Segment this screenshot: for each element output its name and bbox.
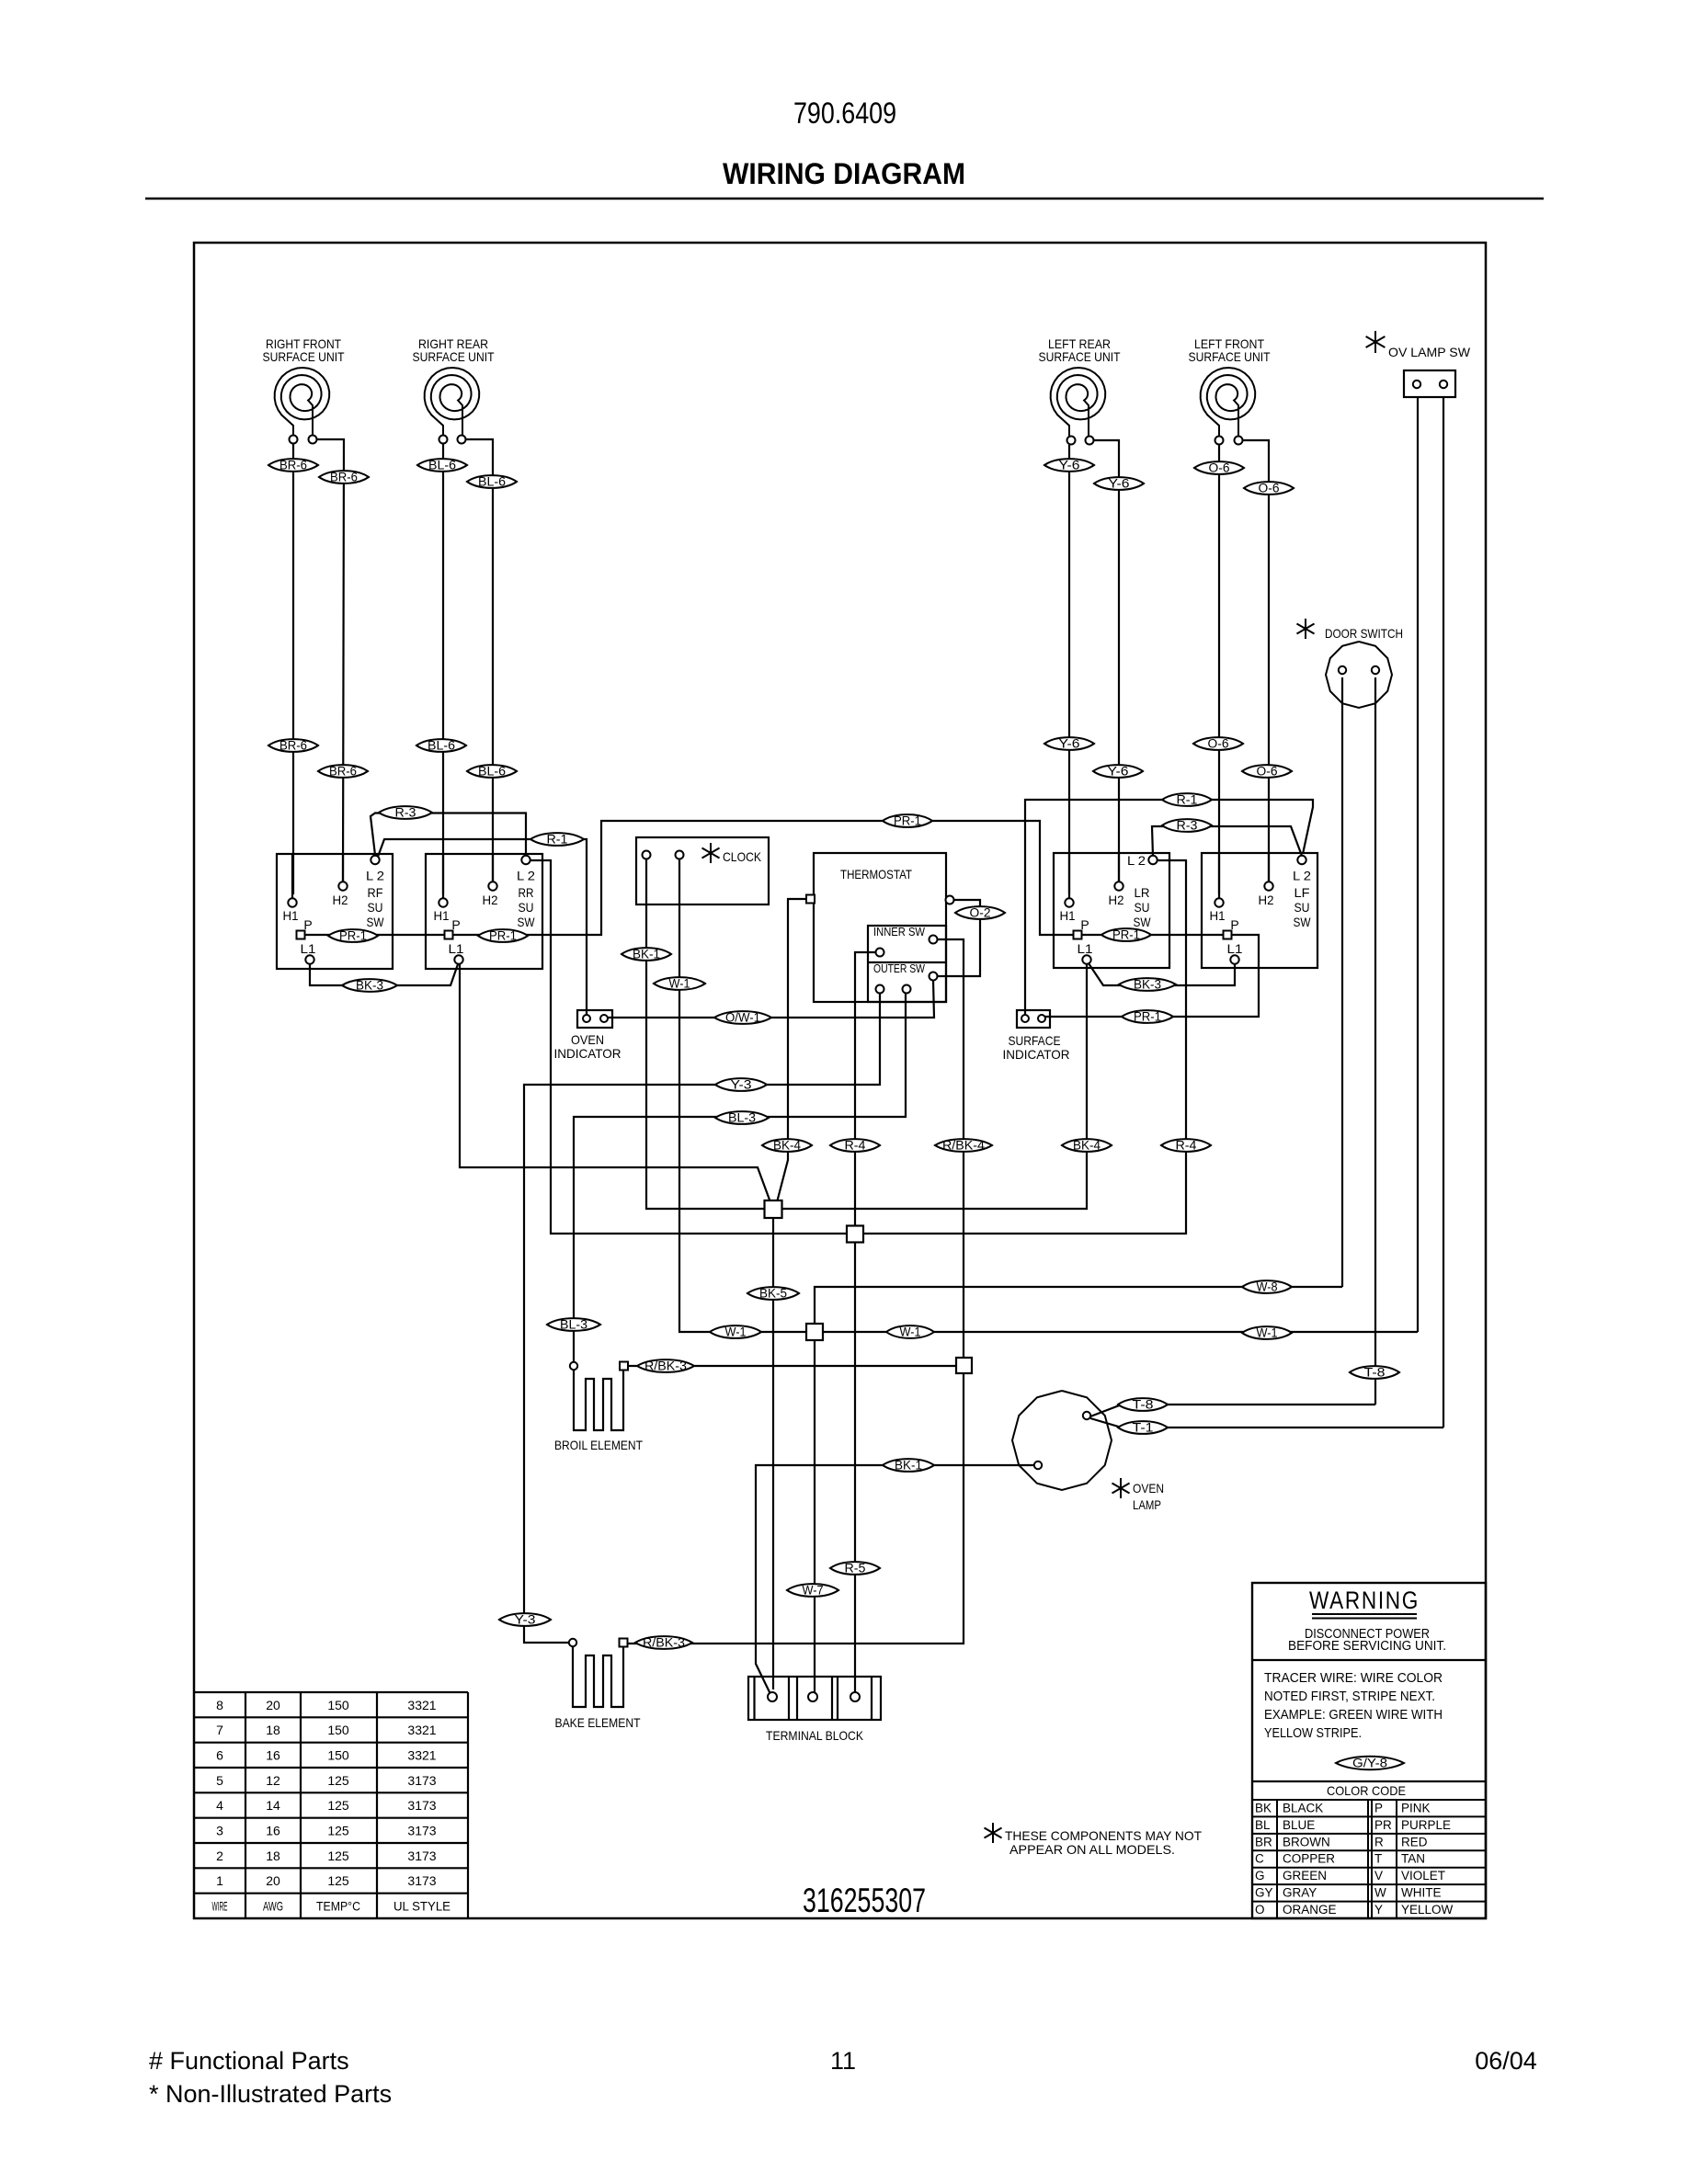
svg-text:125: 125 [327, 1873, 349, 1888]
wire label BK-3 [342, 979, 397, 992]
svg-text:WHITE: WHITE [1401, 1886, 1442, 1900]
svg-text:O/W-1: O/W-1 [725, 1011, 760, 1025]
svg-text:P: P [1080, 917, 1089, 932]
junction node R/BK [956, 1358, 972, 1373]
wire label R/BK-4 [935, 1139, 992, 1152]
CLOCK asterisk [710, 843, 712, 863]
svg-text:O-6: O-6 [1208, 737, 1229, 751]
wire label O-6 [1244, 482, 1294, 495]
svg-text:BR: BR [1255, 1835, 1272, 1848]
wire outer SW right to oven indicator (O/W-1) [608, 980, 934, 1018]
wire clock left to junction (BK-1) [646, 859, 764, 1209]
BAKE ELEMENT pins [569, 1639, 576, 1646]
svg-text:L 2: L 2 [517, 869, 535, 883]
OV LAMP SW asterisk [1374, 331, 1376, 353]
svg-text:SURFACE UNIT: SURFACE UNIT [1039, 349, 1121, 364]
svg-text:RED: RED [1401, 1835, 1428, 1848]
LR unit pins [1067, 437, 1076, 445]
svg-text:Y-6: Y-6 [1059, 737, 1080, 751]
svg-text:H1: H1 [1210, 908, 1226, 923]
wire OV LAMP SW right pin to T-1 [1443, 397, 1444, 1428]
svg-text:EXAMPLE: GREEN WIRE WITH: EXAMPLE: GREEN WIRE WITH [1264, 1708, 1443, 1723]
svg-text:W-7: W-7 [803, 1584, 824, 1598]
wire inner SW right to bake element (R/BK-4) [628, 939, 964, 1644]
wire label Y-6 [1093, 765, 1143, 778]
svg-text:PINK: PINK [1401, 1801, 1431, 1814]
wire label PR-1 [1101, 928, 1151, 941]
OVEN LAMP pins [1083, 1412, 1090, 1419]
svg-text:1: 1 [216, 1873, 223, 1888]
wire label Y-6 [1044, 737, 1094, 750]
wire RR H2 lead [466, 439, 493, 882]
wire R net (RR L2 / LR L2 / inner sw / terminal 3) [530, 860, 1186, 1234]
wire label BK-4 [762, 1139, 812, 1152]
LR switch pin H1 [1065, 898, 1073, 906]
svg-text:WIRING DIAGRAM: WIRING DIAGRAM [723, 157, 965, 190]
svg-text:2: 2 [216, 1848, 223, 1863]
svg-text:C: C [1255, 1852, 1264, 1866]
wire label R-3 [379, 806, 432, 819]
wire label W-8 [1242, 1280, 1292, 1293]
wire label W-1 [1242, 1326, 1292, 1339]
TERMINAL BLOCK body [748, 1677, 881, 1720]
svg-text:T-8: T-8 [1133, 1398, 1154, 1412]
svg-text:* Non-Illustrated Parts: * Non-Illustrated Parts [149, 2080, 392, 2108]
svg-text:O: O [1255, 1903, 1265, 1917]
svg-text:TERMINAL BLOCK: TERMINAL BLOCK [766, 1728, 864, 1743]
svg-text:20: 20 [266, 1698, 280, 1712]
wire label R-1 [1162, 793, 1212, 806]
wire LF H1 lead [1218, 445, 1220, 894]
svg-text:GRAY: GRAY [1283, 1886, 1317, 1900]
wire BK-3 (LR L1 to LF L1) [1089, 963, 1235, 985]
wire label BL-6 [417, 459, 467, 472]
svg-text:SW: SW [518, 915, 536, 929]
svg-text:R-1: R-1 [1177, 793, 1198, 807]
wire label BR-6 [268, 739, 318, 752]
wire label BR-6 [319, 471, 369, 483]
svg-text:316255307: 316255307 [803, 1882, 926, 1919]
LF switch pin L2 [1297, 856, 1306, 864]
wire label R/BK-3 [635, 1636, 692, 1649]
wire label O/W-1 [714, 1011, 771, 1024]
wire label BK-3 [1119, 978, 1176, 991]
wire label G/Y-8 [1336, 1757, 1404, 1770]
COLOR CODE divider [1252, 1780, 1486, 1782]
svg-text:R/BK-4: R/BK-4 [942, 1139, 986, 1153]
svg-text:H1: H1 [1060, 908, 1076, 923]
WARNING divider [1252, 1659, 1486, 1661]
RR switch pin L2 [521, 856, 530, 864]
wire PR-1 LF P to surface indicator [1045, 935, 1259, 1017]
svg-text:06/04: 06/04 [1475, 2047, 1537, 2075]
LR switch wire H1 stub [1068, 853, 1070, 898]
svg-text:UL STYLE: UL STYLE [393, 1899, 451, 1914]
svg-text:5: 5 [216, 1773, 223, 1788]
svg-text:R/BK-3: R/BK-3 [644, 1359, 687, 1373]
svg-text:BL-6: BL-6 [478, 475, 506, 489]
RF switch pin L1 [305, 955, 314, 963]
wire label BR-6 [318, 765, 368, 778]
svg-text:INNER SW: INNER SW [873, 925, 926, 938]
svg-text:8: 8 [216, 1698, 223, 1712]
wire label PR-1 [328, 929, 378, 942]
wire label BK-5 [747, 1287, 799, 1300]
wire label R-1 [530, 833, 584, 846]
svg-text:R-4: R-4 [1176, 1139, 1198, 1153]
svg-text:SW: SW [1294, 915, 1312, 929]
svg-text:COLOR CODE: COLOR CODE [1327, 1783, 1406, 1798]
wire BK-3 (RF L1 to RR L1) [310, 964, 458, 985]
svg-text:GREEN: GREEN [1283, 1869, 1327, 1883]
svg-text:150: 150 [327, 1723, 349, 1737]
svg-text:18: 18 [266, 1723, 280, 1737]
surface unit switch box RF SU SW [277, 854, 393, 969]
svg-text:SU: SU [519, 900, 534, 915]
wire W-1 (clock to OV lamp SW) [679, 859, 1418, 1332]
svg-text:NOTED FIRST, STRIPE NEXT.: NOTED FIRST, STRIPE NEXT. [1264, 1689, 1435, 1704]
surface unit coil RIGHT REAR [425, 368, 480, 439]
svg-text:WIRE: WIRE [212, 1899, 228, 1914]
svg-text:BL-3: BL-3 [728, 1111, 756, 1125]
RF switch wire H2 stub [342, 854, 344, 882]
wire RF H2 lead [316, 439, 344, 882]
wire label BL-6 [416, 739, 466, 752]
svg-text:Y-6: Y-6 [1059, 459, 1080, 472]
LF switch wire H1 stub [1218, 853, 1220, 898]
THERMOSTAT box [814, 853, 946, 1002]
OVEN LAMP body [1012, 1391, 1112, 1490]
wire R-3 (RF L2 to RR L2) [371, 813, 526, 857]
svg-text:150: 150 [327, 1748, 349, 1763]
wire label W-1 [886, 1325, 934, 1338]
svg-text:L1: L1 [1227, 941, 1243, 956]
svg-text:BK-4: BK-4 [773, 1139, 801, 1153]
svg-text:R-4: R-4 [845, 1139, 867, 1153]
LF switch pin H2 [1264, 882, 1272, 890]
RR switch pin P [445, 931, 453, 939]
THERMOSTAT left pin [806, 895, 815, 904]
wire label R/BK-3 [637, 1359, 694, 1372]
INNER SW right pin [930, 936, 938, 944]
svg-text:SURFACE UNIT: SURFACE UNIT [263, 349, 345, 364]
RR switch wire H1 stub [442, 854, 444, 898]
svg-text:14: 14 [266, 1798, 280, 1813]
RF switch pin P [297, 931, 305, 939]
surface unit coil RIGHT FRONT [275, 368, 330, 439]
svg-text:H1: H1 [283, 908, 299, 923]
svg-text:PR-1: PR-1 [1112, 928, 1140, 942]
INNER/OUTER SW sub-box [868, 926, 946, 1002]
BROIL ELEMENT coil [574, 1371, 623, 1430]
wire label T-8 [1350, 1366, 1399, 1379]
svg-text:R-3: R-3 [1177, 819, 1198, 833]
wire label W-7 [787, 1584, 838, 1597]
svg-text:H2: H2 [1259, 893, 1274, 907]
svg-text:H2: H2 [483, 893, 498, 907]
svg-text:RR: RR [519, 885, 534, 900]
svg-text:BR-6: BR-6 [279, 459, 307, 472]
svg-text:BK-1: BK-1 [895, 1459, 922, 1473]
junction node R [847, 1226, 863, 1243]
OVEN INDICATOR box [577, 1010, 612, 1028]
svg-text:BK-1: BK-1 [633, 948, 660, 961]
svg-text:AWG: AWG [263, 1899, 283, 1914]
svg-text:PR-1: PR-1 [1134, 1010, 1161, 1024]
svg-text:APPEAR ON ALL MODELS.: APPEAR ON ALL MODELS. [1009, 1842, 1175, 1857]
svg-text:BL-6: BL-6 [428, 459, 456, 472]
LR switch pin L1 [1082, 955, 1090, 963]
svg-text:12: 12 [266, 1773, 280, 1788]
svg-text:TAN: TAN [1401, 1852, 1425, 1866]
TERMINAL BLOCK pins [768, 1692, 777, 1701]
svg-text:V: V [1374, 1869, 1383, 1883]
svg-text:3173: 3173 [407, 1773, 436, 1788]
wire junction to terminal 1 (BK-5) [772, 1218, 774, 1689]
svg-text:L1: L1 [1078, 941, 1093, 956]
svg-text:3173: 3173 [407, 1798, 436, 1813]
svg-text:3321: 3321 [407, 1723, 436, 1737]
CLOCK box [636, 837, 769, 904]
svg-text:SW: SW [367, 915, 385, 929]
svg-text:3321: 3321 [407, 1698, 436, 1712]
svg-text:H2: H2 [333, 893, 348, 907]
svg-text:L1: L1 [301, 941, 316, 956]
svg-text:BK-3: BK-3 [356, 979, 383, 993]
svg-text:BLUE: BLUE [1283, 1818, 1315, 1832]
wire label W-1 [654, 977, 705, 990]
svg-text:THERMOSTAT: THERMOSTAT [840, 867, 912, 882]
COLOR CODE header rule [1252, 1799, 1486, 1801]
svg-text:SURFACE UNIT: SURFACE UNIT [1189, 349, 1271, 364]
svg-text:BK-4: BK-4 [1073, 1139, 1101, 1153]
wire label Y-6 [1094, 477, 1144, 490]
svg-text:BL: BL [1255, 1818, 1271, 1832]
svg-text:125: 125 [327, 1773, 349, 1788]
RF switch pin H2 [338, 882, 347, 890]
svg-text:P: P [451, 917, 460, 932]
surface unit switch box LF SU SW [1202, 853, 1317, 968]
LR switch pin L2 [1148, 856, 1157, 864]
LF switch pin H1 [1215, 898, 1223, 906]
WARNING box [1252, 1583, 1486, 1918]
OV LAMP SW pins [1413, 381, 1420, 388]
svg-text:BEFORE SERVICING UNIT.: BEFORE SERVICING UNIT. [1288, 1639, 1446, 1654]
svg-text:W-1: W-1 [725, 1325, 747, 1339]
svg-text:W-1: W-1 [900, 1325, 921, 1339]
LR switch pin H2 [1114, 882, 1123, 890]
note asterisk [992, 1823, 994, 1843]
wire LR H2 lead [1093, 440, 1119, 882]
wire label W-1 [710, 1325, 761, 1338]
surface unit switch box RR SU SW [426, 854, 542, 969]
wire R-3 (LF L2 to LR L2) [1152, 826, 1302, 857]
wire W-7 (junction to terminal 2) [814, 1340, 815, 1692]
svg-text:3173: 3173 [407, 1873, 436, 1888]
wire label BL-6 [467, 475, 517, 488]
DOOR SWITCH asterisk [1305, 619, 1306, 639]
wire label BR-6 [268, 459, 318, 472]
svg-text:3: 3 [216, 1824, 223, 1838]
svg-text:BLACK: BLACK [1283, 1801, 1323, 1814]
svg-text:OUTER SW: OUTER SW [873, 961, 926, 975]
svg-text:3321: 3321 [407, 1748, 436, 1763]
svg-text:R: R [1374, 1835, 1384, 1848]
svg-text:PURPLE: PURPLE [1401, 1818, 1451, 1832]
svg-text:4: 4 [216, 1798, 223, 1813]
svg-text:T: T [1374, 1852, 1382, 1866]
svg-text:125: 125 [327, 1824, 349, 1838]
CLOCK pins [643, 851, 651, 859]
svg-text:TRACER WIRE: WIRE COLOR: TRACER WIRE: WIRE COLOR [1264, 1671, 1443, 1686]
svg-text:W-8: W-8 [1257, 1280, 1278, 1294]
wire label BK-1 [883, 1459, 934, 1472]
wire RF H1 lead [292, 444, 294, 894]
svg-text:R-1: R-1 [547, 833, 568, 847]
svg-text:LF: LF [1295, 885, 1310, 900]
svg-text:INDICATOR: INDICATOR [1003, 1047, 1070, 1062]
wire thermostat left to junction (BK-4) [777, 899, 806, 1202]
wire PR-1 net [304, 821, 1224, 935]
wire junction to LR L1 (BK-4) [782, 964, 1087, 1209]
svg-text:W-1: W-1 [669, 977, 690, 991]
svg-text:Y: Y [1374, 1903, 1383, 1917]
RR switch pin L1 [454, 955, 462, 963]
svg-text:COPPER: COPPER [1283, 1852, 1335, 1866]
wire outer SW to bake element (Y-3) [524, 993, 880, 1643]
svg-text:PR-1: PR-1 [894, 814, 921, 828]
TERMINAL BLOCK dividers [753, 1677, 755, 1720]
main diagram border [194, 243, 1486, 1918]
svg-text:YELLOW: YELLOW [1401, 1903, 1454, 1917]
svg-text:OVEN: OVEN [571, 1032, 604, 1047]
svg-text:BK: BK [1255, 1801, 1272, 1814]
wire gauge table grid [194, 1691, 468, 1693]
wire thermostat right to outer SW (O-2) [937, 900, 980, 976]
title underline rule [145, 198, 1544, 200]
svg-text:R/BK-3: R/BK-3 [643, 1636, 685, 1650]
surface unit coil LEFT FRONT [1201, 368, 1256, 439]
RR switch pin H2 [488, 882, 496, 890]
svg-text:CLOCK: CLOCK [723, 849, 762, 864]
WARNING title underline [1312, 1613, 1417, 1615]
INNER SW left pin [876, 949, 884, 957]
wire label Y-3 [499, 1613, 551, 1626]
svg-text:O-6: O-6 [1259, 482, 1280, 495]
wire label BK-4 [1062, 1139, 1112, 1152]
wire label T-1 [1118, 1421, 1168, 1434]
svg-text:150: 150 [327, 1698, 349, 1712]
wire label O-6 [1193, 737, 1243, 750]
svg-text:BL-6: BL-6 [428, 739, 455, 753]
wire label PR-1 [478, 929, 528, 942]
INNER/OUTER SW divider [868, 961, 946, 963]
svg-text:Y-6: Y-6 [1108, 765, 1129, 779]
DOOR SWITCH pins [1339, 666, 1346, 674]
svg-text:R-3: R-3 [395, 806, 416, 820]
RF switch wire H1 stub [291, 854, 293, 898]
svg-text:THESE COMPONENTS MAY NOT: THESE COMPONENTS MAY NOT [1005, 1828, 1202, 1843]
svg-text:Y-6: Y-6 [1109, 477, 1130, 491]
wire door switch left pin to W-8 [1341, 677, 1343, 1287]
svg-text:P: P [1374, 1801, 1383, 1814]
svg-text:RF: RF [368, 885, 383, 900]
svg-text:G: G [1255, 1869, 1265, 1883]
svg-text:G/Y-8: G/Y-8 [1352, 1757, 1387, 1770]
svg-text:INDICATOR: INDICATOR [554, 1046, 622, 1061]
LR switch wire H2 stub [1118, 853, 1120, 882]
svg-text:3173: 3173 [407, 1848, 436, 1863]
svg-text:6: 6 [216, 1748, 223, 1763]
wire broil element to R/BK net (R/BK-3) [628, 1365, 956, 1367]
OUTER SW bottom pins [876, 985, 884, 994]
wire label BL-6 [467, 765, 517, 778]
svg-text:Y-3: Y-3 [731, 1078, 752, 1092]
svg-text:L 2: L 2 [366, 869, 384, 883]
svg-text:OV LAMP SW: OV LAMP SW [1388, 345, 1471, 359]
svg-text:R-5: R-5 [845, 1562, 866, 1575]
wire R-1 (LF L2 to surface indicator) [1025, 800, 1313, 1016]
svg-text:BAKE ELEMENT: BAKE ELEMENT [555, 1715, 641, 1730]
svg-text:16: 16 [266, 1748, 280, 1763]
svg-text:PR-1: PR-1 [489, 929, 517, 943]
svg-text:W: W [1374, 1886, 1386, 1900]
svg-text:7: 7 [216, 1723, 223, 1737]
svg-text:BK-5: BK-5 [759, 1287, 787, 1301]
wire door switch right pin to T-8 [1374, 677, 1376, 1405]
COLOR CODE table grid [1252, 1815, 1486, 1817]
LR switch pin P [1074, 931, 1082, 939]
wire label PR-1 [1122, 1010, 1173, 1023]
wire label BK-1 [622, 948, 671, 961]
LF unit pins [1215, 437, 1224, 445]
wire inner SW left to terminal 3 (R-4/R-5) [855, 952, 875, 1692]
svg-text:O-6: O-6 [1209, 461, 1230, 475]
svg-text:H1: H1 [434, 908, 450, 923]
svg-text:PR: PR [1374, 1818, 1392, 1832]
wire label BL-3 [715, 1111, 769, 1124]
wire label O-6 [1194, 461, 1244, 474]
wire LF H2 lead [1242, 440, 1269, 882]
wire label Y-3 [715, 1078, 767, 1091]
svg-text:BR-6: BR-6 [329, 765, 357, 779]
SURFACE INDICATOR box [1017, 1010, 1050, 1028]
THERMOSTAT right pin [946, 896, 954, 904]
svg-text:BK-3: BK-3 [1134, 978, 1161, 992]
OVEN LAMP asterisk [1120, 1478, 1122, 1498]
RF unit pins [290, 436, 298, 444]
wire label PR-1 [883, 814, 932, 827]
svg-text:W-1: W-1 [1257, 1326, 1278, 1340]
wire T-1 (oven lamp to OV lamp SW) [1090, 1418, 1443, 1428]
wire label O-6 [1242, 765, 1292, 778]
svg-text:SU: SU [1135, 900, 1150, 915]
svg-text:T-1: T-1 [1133, 1421, 1154, 1435]
svg-text:BROIL ELEMENT: BROIL ELEMENT [554, 1438, 643, 1452]
svg-text:# Functional Parts: # Functional Parts [149, 2047, 349, 2075]
svg-text:125: 125 [327, 1848, 349, 1863]
svg-text:3173: 3173 [407, 1824, 436, 1838]
wire RR H1 lead [442, 444, 444, 894]
svg-text:PR-1: PR-1 [339, 929, 367, 943]
svg-text:20: 20 [266, 1873, 280, 1888]
OVEN INDICATOR pins [583, 1015, 590, 1022]
wire R-1 (RF L2 to oven indicator) [378, 839, 587, 1016]
svg-text:T-8: T-8 [1364, 1366, 1386, 1380]
wire T-8 (door switch to oven lamp) [1090, 1405, 1375, 1416]
wire label O-2 [955, 906, 1005, 919]
svg-text:P: P [1230, 917, 1238, 932]
